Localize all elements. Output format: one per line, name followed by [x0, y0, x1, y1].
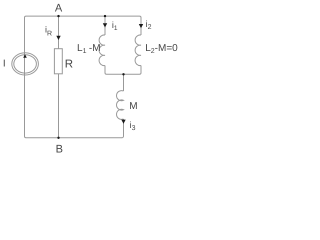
arrow iR [56, 36, 60, 40]
inductor L1-M coil [99, 35, 105, 66]
current source I outer circle [12, 53, 39, 75]
inductor L2-M=0 coil [135, 35, 141, 66]
current source I inner circle [14, 55, 37, 73]
svg-text:A: A [55, 3, 63, 15]
wire M branch bottom with corner [122, 119, 124, 138]
arrow i1 [103, 23, 107, 27]
wire resistor branch top [58, 16, 60, 49]
svg-text:iR: iR [45, 24, 52, 37]
svg-text:B: B [56, 144, 63, 156]
svg-text:L2-M=0: L2-M=0 [145, 43, 178, 55]
junction dot M top [122, 73, 124, 75]
wire M branch top [123, 74, 125, 91]
svg-text:L1-M: L1-M [77, 43, 101, 55]
arrow i2 [139, 24, 143, 28]
svg-text:i3: i3 [130, 120, 136, 132]
svg-text:M: M [129, 101, 137, 112]
resistor R body [54, 49, 62, 74]
inductor M coil [117, 91, 124, 120]
wire resistor branch bottom [58, 74, 60, 138]
svg-text:i2: i2 [146, 19, 152, 31]
wire outer loop: bottom rail, left branch, top rail, L2 stub [25, 16, 142, 138]
junction dot L1 top [104, 15, 106, 17]
wire L1 branch top [104, 16, 106, 35]
wire join line with L1/L2 stubs [105, 66, 141, 75]
svg-text:I: I [3, 59, 6, 70]
node A junction dot [57, 15, 59, 17]
current source arrow head [23, 54, 27, 57]
svg-text:i1: i1 [112, 20, 118, 32]
arrow i3 [121, 120, 125, 124]
svg-text:R: R [65, 59, 73, 71]
node B junction dot [57, 137, 59, 139]
